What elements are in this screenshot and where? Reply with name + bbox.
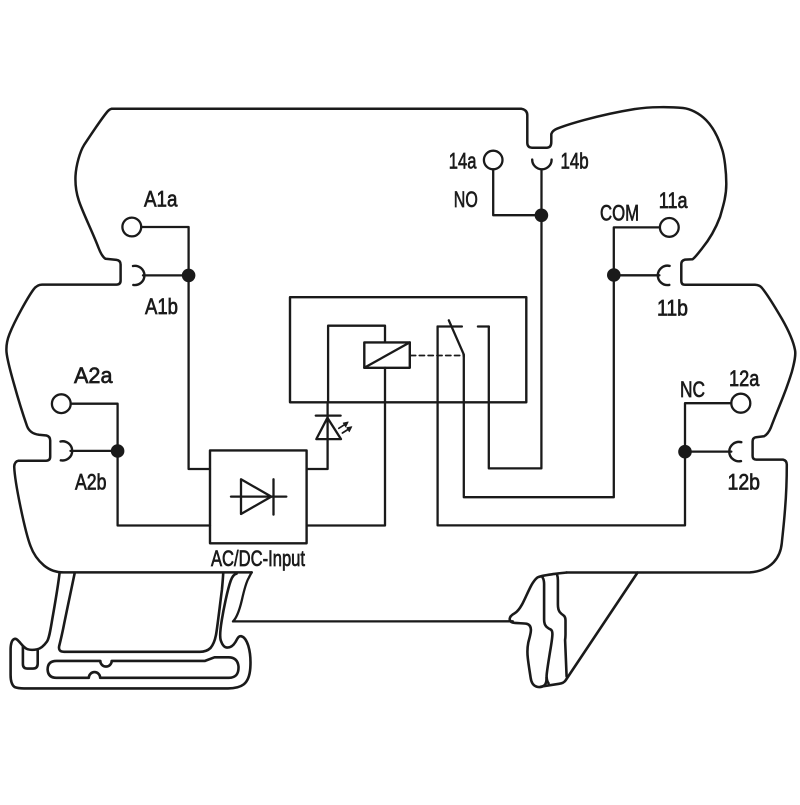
svg-text:NC: NC	[680, 377, 705, 402]
junction node 11b	[607, 268, 621, 282]
A1b clamp arc	[133, 266, 144, 285]
wire 14a to junction	[493, 169, 541, 215]
wire A2a to junction	[71, 404, 118, 446]
svg-text:A2a: A2a	[74, 363, 113, 388]
diode V1	[231, 479, 286, 514]
right foot	[510, 573, 567, 688]
wire A1a to junction	[141, 227, 188, 270]
wire 12b arc to junction	[685, 450, 731, 452]
svg-text:12a: 12a	[729, 366, 760, 391]
relay box	[290, 297, 526, 402]
wire NC to junction	[685, 403, 731, 446]
svg-text:A1b: A1b	[145, 294, 178, 319]
svg-text:11a: 11a	[659, 188, 688, 213]
coil feed wire	[328, 326, 385, 403]
wire junction A2 down to AC/DC box	[118, 451, 210, 526]
housing outline	[6, 107, 795, 572]
left foot: inner hook slot	[23, 647, 38, 669]
switch NO contact tick	[438, 325, 462, 327]
svg-text:A1a: A1a	[144, 187, 178, 212]
wire COM to junction	[614, 227, 660, 270]
LED arrows	[339, 422, 352, 433]
LED D1	[307, 402, 341, 469]
11a / COM terminal circle	[660, 218, 679, 237]
wire A1b arc to junction	[143, 274, 189, 276]
svg-text:A2b: A2b	[75, 469, 107, 494]
switch second contact tick	[478, 325, 489, 327]
svg-text:COM: COM	[600, 200, 639, 225]
A2a terminal circle	[52, 394, 71, 413]
wire 14b down through junction to switch NO contact	[489, 170, 542, 468]
junction node 14b	[535, 209, 549, 223]
svg-text:NO: NO	[454, 187, 478, 212]
switch blade	[449, 320, 464, 356]
wire 12b junction down to switch left contact	[438, 327, 685, 526]
14a terminal circle	[484, 151, 503, 170]
coil diagonal	[364, 342, 410, 367]
left foot: parallelogram inner	[59, 574, 223, 652]
svg-text:14b: 14b	[561, 148, 589, 173]
svg-text:14a: 14a	[449, 148, 477, 173]
junction node A1b	[182, 269, 196, 283]
wire junction A1 down to AC/DC box	[189, 275, 210, 469]
circuit: A1a terminal circle	[122, 218, 141, 237]
svg-text:AC/DC-Input: AC/DC-Input	[211, 546, 305, 571]
junction node 12b	[678, 445, 692, 459]
12a / NC terminal circle	[731, 394, 750, 413]
coil bottom wire to AC/DC box	[307, 368, 385, 526]
AC/DC input rectifier box	[210, 450, 307, 543]
relay coil K1	[364, 342, 410, 367]
din rail line between feet	[233, 572, 513, 621]
11b clamp arc	[658, 266, 670, 285]
svg-text:12b: 12b	[728, 469, 761, 494]
wire 11b junction down to switch blade	[464, 275, 614, 497]
wire 11b arc to junction	[614, 274, 660, 276]
left foot: bottom slot with bumps	[48, 657, 239, 678]
12b clamp arc	[729, 442, 741, 461]
wire A2b arc to junction	[71, 450, 118, 452]
A2b clamp arc	[61, 441, 73, 460]
svg-text:11b: 11b	[657, 295, 688, 320]
junction node A2b	[111, 444, 125, 458]
left foot: outer contour with hook and curl	[11, 573, 251, 689]
14b clamp U arc	[532, 160, 551, 170]
dashed actuation link	[411, 355, 462, 357]
